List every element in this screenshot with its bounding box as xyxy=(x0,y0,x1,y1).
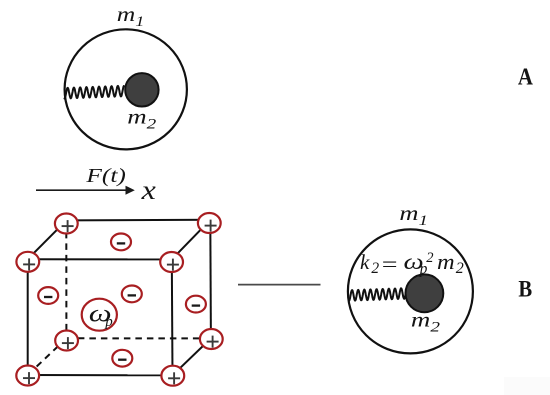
svg-text:2: 2 xyxy=(456,260,464,277)
faint watermark remnant bottom-right xyxy=(504,377,550,395)
mass circle m1 (system B) xyxy=(348,229,473,353)
cube edge front-left (FTL-FBL) xyxy=(27,259,29,375)
electron minus left xyxy=(38,287,58,304)
positive ion FTL corner xyxy=(16,252,39,272)
label m2 (system B) xyxy=(411,309,440,335)
panel label A xyxy=(518,63,534,90)
electron minus top xyxy=(111,234,131,251)
electron minus center xyxy=(122,286,142,303)
mass circle m1 (system A) xyxy=(65,29,187,149)
positive ion BBL corner xyxy=(55,331,78,351)
label m1 (system B) xyxy=(399,203,428,229)
svg-text:m1: m1 xyxy=(399,203,428,229)
positive ion BTL corner xyxy=(55,214,78,234)
cube edge hidden back-left (BTL-BBL, dashed) xyxy=(65,220,67,338)
label m2 (system A) xyxy=(127,106,156,132)
cube edge bottom-right (BBR-FBR) xyxy=(173,338,211,375)
cube edge hidden back-bottom (BBL-BBR, dashed) xyxy=(66,337,211,339)
cube edge front-right (FTR-FBR) xyxy=(171,259,174,375)
svg-text:=: = xyxy=(382,253,398,276)
spring (system A) xyxy=(65,86,124,99)
positive ion FBR corner xyxy=(161,366,184,386)
label m1 (system A) xyxy=(117,3,145,30)
svg-text:F(t): F(t) xyxy=(85,164,126,186)
electron minus right xyxy=(186,296,206,313)
positive ion BTR corner xyxy=(198,213,221,233)
label F(t) xyxy=(85,164,126,186)
plasma frequency circle omega_p xyxy=(82,299,117,331)
cube edge front-bottom (FBL-FBR) xyxy=(28,374,173,376)
label omega_p xyxy=(89,301,112,327)
electron minus bottom xyxy=(112,350,132,367)
positive ion FBL corner xyxy=(16,366,39,386)
force arrow xyxy=(36,186,135,195)
cube edge front-top (FTL-FTR) xyxy=(28,258,172,260)
svg-text:2: 2 xyxy=(426,250,433,266)
mass circle m2 (system A) xyxy=(125,73,158,106)
cube edge back-right (BTR-BBR) xyxy=(209,220,212,339)
cube edge hidden bottom-left (BBL-FBL, dashed) xyxy=(28,338,67,375)
label x axis xyxy=(141,176,156,205)
svg-text:m1: m1 xyxy=(117,3,145,30)
mass circle m2 (system B) xyxy=(406,274,444,312)
svg-text:A: A xyxy=(518,63,534,90)
svg-text:p: p xyxy=(104,314,113,330)
formula k2 = omega_p^2 m2 xyxy=(360,249,464,277)
positive ion BBR corner xyxy=(200,329,223,349)
positive ion FTR corner xyxy=(160,252,183,272)
cube edge top-right (BTR-FTR) xyxy=(172,220,211,260)
cube edge back-top (BTL-BTR) xyxy=(66,219,210,222)
cube edge top-left (BTL-FTL) xyxy=(28,220,67,259)
connector line between cube and system B xyxy=(238,284,321,286)
svg-text:m: m xyxy=(437,250,455,275)
svg-text:x: x xyxy=(141,176,156,205)
spring (system B) xyxy=(349,288,406,301)
panel label B xyxy=(518,275,532,302)
svg-text:B: B xyxy=(518,275,532,302)
